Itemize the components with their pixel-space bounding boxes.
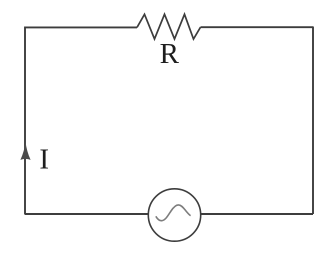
- resistor R: [137, 14, 201, 39]
- svg-text:I: I: [39, 143, 49, 175]
- current arrowhead on left wire: [20, 142, 30, 160]
- wire: left side: [24, 27, 26, 215]
- AC source U1: circle: [148, 189, 200, 241]
- svg-text:R: R: [160, 38, 180, 70]
- wire: bottom-left segment to source: [25, 213, 148, 215]
- AC source sine wave: [156, 205, 191, 221]
- wire: right side: [312, 27, 314, 215]
- wire: top-left segment to resistor: [25, 26, 137, 28]
- wire: top-right segment from resistor: [201, 26, 314, 28]
- wire: bottom-right segment from source: [201, 213, 313, 215]
